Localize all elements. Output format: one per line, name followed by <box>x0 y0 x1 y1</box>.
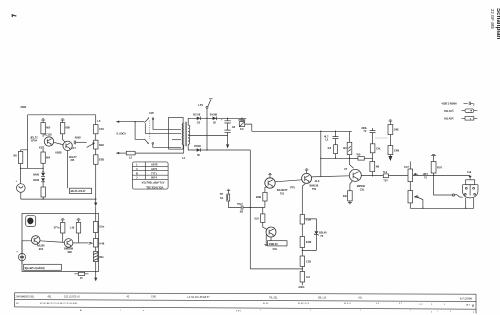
arrow rail down <box>94 278 97 282</box>
wire R24 to output <box>413 173 471 175</box>
wire Q5 emitter <box>350 181 353 191</box>
svg-text:9L 9J: 9L 9J <box>263 303 268 305</box>
svg-text:B0.47+C0.47: B0.47+C0.47 <box>71 189 86 193</box>
ground chassis above R3 <box>61 119 65 123</box>
wire Q7 to Q8 <box>40 241 64 243</box>
wire rectifier top <box>201 117 247 119</box>
transistor Q6 <box>266 227 276 237</box>
svg-text:0.5n: 0.5n <box>99 225 104 229</box>
label B952B C5L <box>357 184 365 191</box>
wire lamp return <box>206 118 208 150</box>
svg-text:C4B: C4B <box>394 148 399 152</box>
svg-text:6.3: 6.3 <box>240 127 244 131</box>
diode D4 <box>210 112 218 124</box>
boxed label B0.47+C0.47 <box>70 188 92 193</box>
transformer L4 secondary <box>188 125 190 144</box>
svg-text:CH5: CH5 <box>151 296 156 299</box>
node PR0B top <box>241 118 242 119</box>
svg-text:600: 600 <box>46 126 51 130</box>
label JELZY 1P54 <box>30 136 38 143</box>
wire 0V to ladder <box>250 268 302 270</box>
ground chassis above R2 <box>41 119 45 123</box>
wire R21 to R22 <box>388 174 408 176</box>
chassis ground above R24 <box>431 154 436 161</box>
svg-text:22 GF 485: 22 GF 485 <box>490 9 495 29</box>
svg-text:80n: 80n <box>99 255 104 259</box>
svg-text:%S A0¾: %S A0¾ <box>444 109 455 113</box>
wire speaker left pin down <box>465 198 467 208</box>
diode D2 <box>33 178 45 182</box>
diode D3 <box>193 112 201 124</box>
arrowhead into pot P1 <box>87 143 95 148</box>
wire diodes to R5 <box>42 182 44 187</box>
wire fuse to transformer <box>135 145 184 153</box>
parts table right edge <box>475 294 477 313</box>
wire R10-R11 <box>301 224 303 237</box>
wire R32 to base line <box>335 154 337 159</box>
node input on 0V rail <box>250 207 251 208</box>
connector pin 2 <box>473 187 475 189</box>
svg-text:1S1 L5J E5 +5: 1S1 L5J E5 +5 <box>64 296 80 299</box>
wire to switch pole1 <box>135 121 144 123</box>
test jack S1 <box>220 192 230 201</box>
wire Q1 to Q2 <box>54 142 63 144</box>
wire M2 to Q7 <box>22 241 31 254</box>
wire rail to R27 <box>95 206 97 221</box>
capacitor C4 <box>237 202 244 213</box>
wire R15 leads <box>263 208 267 230</box>
wire R19 to R20 <box>389 135 391 146</box>
wire R2 to Q1 <box>42 134 44 137</box>
svg-text:B4B: B4B <box>256 195 261 199</box>
wire Q3 to Q4 <box>275 180 302 182</box>
resistor R10 <box>300 215 311 225</box>
node ladder mid <box>302 250 303 251</box>
resistor R13 <box>300 272 310 283</box>
node C <box>42 171 43 172</box>
transistor Q4 <box>302 173 312 183</box>
potentiometer R28 <box>93 239 104 248</box>
svg-text:0.8: 0.8 <box>328 146 332 150</box>
resistor R19 <box>388 125 399 135</box>
resistor R25 <box>54 223 65 234</box>
wire base line <box>321 157 358 159</box>
wire C4 to amp input <box>243 207 265 209</box>
svg-text:C1B: C1B <box>306 260 311 264</box>
svg-text:LP1: LP1 <box>198 103 203 107</box>
wire R5 to rail <box>42 197 44 199</box>
diode D1 <box>33 172 45 176</box>
wiper arrow into R28 <box>89 242 92 244</box>
wire pole2 feed <box>135 122 144 140</box>
chassis ground above R25 <box>61 219 65 223</box>
mains arrow N <box>116 152 119 154</box>
wire +rail <box>252 130 352 132</box>
boxed label 0/9B.3V <box>268 241 288 251</box>
svg-text:0A90: 0A90 <box>33 172 40 176</box>
parts table lower line <box>15 307 477 309</box>
wire R18 down <box>372 172 374 177</box>
svg-text:5L6: 5L6 <box>254 217 259 221</box>
parts row1 <box>16 296 473 301</box>
resistor R32 <box>328 145 338 154</box>
wire C1 to pot with arrow <box>76 141 87 143</box>
svg-text:?00: ?00 <box>356 152 361 156</box>
parts table top line <box>15 293 477 294</box>
transistor Q2 <box>63 141 72 150</box>
mains arrow L <box>116 121 119 123</box>
svg-text:79L 05L: 79L 05L <box>269 296 278 299</box>
svg-text:C5L: C5L <box>360 187 365 191</box>
resistor R18 <box>370 162 380 172</box>
svg-text:/L A0C0: /L A0C0 <box>117 132 127 136</box>
label AB.2N 904 <box>37 244 45 251</box>
capacitor C1 <box>74 135 81 144</box>
transistor Q8 <box>64 239 73 248</box>
transistor Q3 <box>265 178 275 188</box>
resistor R27 <box>93 222 104 233</box>
svg-text:A304: A304 <box>298 285 305 289</box>
MAIN SCHEMATIC GROUP <box>442 102 478 121</box>
resistor R15 <box>254 214 265 223</box>
svg-text:BY.V8: BY.V8 <box>193 112 201 116</box>
svg-text:C5L: C5L <box>273 247 278 251</box>
node mains junction <box>134 121 135 122</box>
wire R25 down <box>62 233 64 242</box>
resistor R7 <box>94 155 105 165</box>
node rect1 <box>206 118 207 119</box>
node base line R16 <box>349 158 350 159</box>
lamp LP1 <box>198 99 212 119</box>
resistor R6 <box>94 125 105 134</box>
wire center tap <box>188 134 227 136</box>
wire M2 bottom <box>21 261 23 265</box>
wire jack to C4 <box>229 201 242 208</box>
svg-text:J: J <box>444 304 445 306</box>
wire collector feed <box>320 131 322 176</box>
svg-text:J15: J15 <box>70 158 75 162</box>
wire R14 leads <box>265 186 267 207</box>
wire secondary top <box>188 118 197 125</box>
transformer tap box <box>169 117 184 149</box>
svg-text:C4?: C4? <box>404 165 409 169</box>
svg-text:B: B <box>136 171 138 175</box>
svg-text:7?71: 7?71 <box>151 171 157 175</box>
wire PR0B leads <box>242 118 252 131</box>
svg-text:VOLTAGE SEL: VOLTAGE SEL <box>145 185 163 189</box>
wire mains L <box>116 121 135 123</box>
microphone M2 <box>16 251 25 261</box>
svg-text:AC125: AC125 <box>44 133 52 137</box>
svg-text:0-48: 0-48 <box>99 241 105 245</box>
wire R6 to P1 <box>95 134 97 140</box>
capacitor C3 <box>324 131 339 144</box>
svg-text:604: 604 <box>46 156 51 160</box>
pickup M1 <box>16 180 26 192</box>
svg-text:5 9 5: 5 9 5 <box>236 311 242 313</box>
node speaker return <box>465 208 466 209</box>
label JELZY J15 <box>69 155 77 162</box>
parts row3 <box>80 309 475 314</box>
wire secondary bottom <box>188 144 250 150</box>
label B9N-36 T51 <box>310 184 319 191</box>
svg-text:751: 751 <box>280 191 285 195</box>
svg-text:A062: A062 <box>75 135 82 139</box>
svg-text:7: 7 <box>12 14 18 17</box>
wire zener branch <box>305 219 317 231</box>
node B <box>42 168 43 169</box>
transistor Q5 <box>349 169 361 181</box>
transformer L4 core <box>185 122 187 147</box>
svg-text:?5?: ?5? <box>383 178 388 182</box>
label BM52M 906 <box>64 246 74 253</box>
parts row2 <box>16 303 475 308</box>
svg-text:+5L: +5L <box>358 297 363 300</box>
svg-text:L4 %0 C0 L#5 E8 5?: L4 %0 C0 L#5 E8 5? <box>187 296 210 299</box>
svg-text:039Z: 039Z <box>21 105 27 109</box>
resistor R11 <box>300 237 312 248</box>
resistor R14 <box>256 192 267 201</box>
svg-text:9u? (25/9#): 9u? (25/9#) <box>460 297 472 300</box>
pickup icon box <box>26 216 36 227</box>
wire return line <box>410 207 473 209</box>
svg-text:50?4: 50?4 <box>151 176 157 180</box>
label 60L0E7P 751 <box>277 188 288 195</box>
svg-text:?L2: ?L2 <box>383 170 388 174</box>
node C2 top <box>227 118 228 119</box>
resistor R24 <box>431 162 442 174</box>
node feedback <box>422 208 423 209</box>
svg-text:RU?: RU? <box>437 166 443 170</box>
node collector feed top <box>320 131 321 132</box>
svg-text:C04: C04 <box>99 127 104 131</box>
svg-text:A0?1: A0?1 <box>151 167 158 171</box>
ground arrow below R20 <box>389 155 392 161</box>
arrow to speaker <box>469 176 472 179</box>
svg-text:05L L.B: 05L L.B <box>318 296 327 299</box>
wire R3 to Q2 <box>63 134 66 143</box>
svg-text:E0B: E0B <box>99 158 104 162</box>
svg-text:%S A8¾: %S A8¾ <box>444 117 455 121</box>
wire R7 to rail <box>95 164 97 202</box>
tolerance legend resistor with 1 <box>462 117 478 121</box>
connector pin 1 <box>465 187 467 189</box>
svg-text:EB: EB <box>343 194 347 198</box>
wire R29 to bottom <box>95 262 97 278</box>
speaker connector body <box>462 179 478 198</box>
wire R11-R12 <box>301 248 303 257</box>
resistor R4 <box>41 152 51 163</box>
parts table left edge <box>14 293 16 307</box>
resistor R12 <box>300 256 311 267</box>
resistor R23 <box>408 191 420 203</box>
svg-text:AB.2N: AB.2N <box>37 244 45 248</box>
wire frame right down <box>95 115 97 125</box>
wire pickup to rail <box>20 192 22 199</box>
svg-text:BY.N8: BY.N8 <box>210 112 218 116</box>
svg-text:1B.5: 1B.5 <box>466 304 471 306</box>
svg-text:9Y.N9: 9Y.N9 <box>194 144 201 148</box>
transistor Q1 <box>44 137 53 146</box>
ground Q6 <box>264 235 268 246</box>
wire to Q5 base <box>349 158 353 168</box>
block2 frame <box>22 214 99 272</box>
tolerance legend cap symbol <box>464 102 476 107</box>
wire R27 to R28 <box>95 233 97 239</box>
boxed formula label <box>24 264 62 270</box>
svg-text:%DE 2 N00N: %DE 2 N00N <box>442 102 457 106</box>
wire R23 to return <box>409 203 411 208</box>
wire mains N <box>116 152 126 154</box>
wiper arrow R22 <box>414 173 418 175</box>
svg-text:A-0: A-0 <box>306 275 311 279</box>
voltage selector table <box>132 162 168 189</box>
zener D6 <box>315 230 328 237</box>
diode D5 <box>194 144 201 157</box>
svg-text:T51: T51 <box>312 187 317 191</box>
svg-text:A?L+P0P ?09L7CA: A?L+P0P ?09L7CA <box>142 181 165 185</box>
resistor R2 <box>41 123 51 134</box>
svg-text:N18: N18 <box>99 143 104 147</box>
resistor R16 <box>343 131 352 154</box>
wiper arrow R23 feedback <box>415 196 423 200</box>
svg-text:0/9B.3V: 0/9B.3V <box>269 242 278 246</box>
node collector feed mid <box>320 158 321 159</box>
svg-text:27?n: 27?n <box>54 226 60 230</box>
wire Q1 to R4 <box>42 146 44 152</box>
connector pin 4 <box>474 193 476 195</box>
chassis ground above Q4 <box>305 169 309 174</box>
wire Q2 emitter down <box>67 151 69 189</box>
faint link wire <box>375 137 388 139</box>
svg-text:B5L40: B5L40 <box>319 230 327 234</box>
svg-text:C#5: C#5 <box>149 111 154 115</box>
svg-text:A02B: A02B <box>55 151 62 155</box>
resistor R17 <box>370 144 381 153</box>
svg-text:L16: L16 <box>70 226 75 230</box>
block1 frame left <box>27 115 29 169</box>
tolerance legend resistor with dot <box>462 109 478 113</box>
svg-text:906: 906 <box>68 250 73 254</box>
svg-text:A0?E: A0?E <box>151 162 158 166</box>
resistor R26 <box>70 223 81 234</box>
block1 frame top <box>28 114 96 116</box>
thermistor R29 <box>93 252 104 262</box>
wire block1 bottom rail <box>21 198 96 200</box>
svg-text:34B: 34B <box>394 128 399 132</box>
svg-text:C4L: C4L <box>376 147 381 151</box>
potentiometer P1 <box>94 140 105 149</box>
chassis ground above R19 <box>389 120 393 125</box>
wire R4 to diodes <box>21 163 43 173</box>
transformer L4 primary <box>182 123 184 145</box>
svg-text:TP: TP <box>220 192 224 196</box>
resistor R20 <box>388 146 399 155</box>
wire Q4 to Q5 <box>312 176 350 177</box>
wire R24 to hook <box>434 175 453 195</box>
svg-text:904: 904 <box>39 247 44 251</box>
parts table mid line <box>15 300 477 302</box>
wire R17 to R18 <box>372 153 374 162</box>
wire 0V rail down <box>249 150 251 269</box>
node D <box>43 198 44 199</box>
wire pickup branch top <box>21 150 28 152</box>
svg-text:45L: 45L <box>48 296 53 299</box>
switch coupling dashed <box>149 121 151 141</box>
arrow to block2 rail <box>94 203 97 207</box>
svg-text:9[x+B/T+1)x0/x0]: 9[x+B/T+1)x0/x0] <box>25 266 45 270</box>
ground below R31 <box>348 201 352 204</box>
resistor R3 <box>60 123 70 134</box>
wire R1 to pickup <box>20 164 22 184</box>
svg-text:A1Y: A1Y <box>71 146 76 150</box>
wire Q4 emitter to ladder <box>302 184 305 215</box>
wire R13 tail <box>301 282 303 285</box>
pickup icon blob <box>27 218 33 225</box>
chassis ground above R26 <box>77 219 81 223</box>
resistor R1 <box>13 152 22 164</box>
svg-text:BM52M: BM52M <box>64 246 74 250</box>
connector pin 3 <box>464 193 466 195</box>
wire R12-R13 <box>301 267 303 272</box>
node output R24 <box>433 175 434 176</box>
svg-text:2N4 B#B0G0 95L: 2N4 B#B0G0 95L <box>16 296 35 299</box>
wire zener to ladder mid <box>302 235 316 251</box>
wire R22 to R23 <box>409 182 411 191</box>
wire R28 to R29 <box>95 247 97 252</box>
resistor R5 <box>41 187 45 197</box>
svg-text:1P54: 1P54 <box>31 139 37 143</box>
svg-text:C1B: C1B <box>306 218 311 222</box>
wire R26 down <box>78 233 80 243</box>
svg-text:AL0: AL0 <box>315 179 320 183</box>
node rail tap <box>335 131 336 132</box>
capacitor C6 <box>361 126 375 144</box>
transistor Q7 <box>31 236 40 245</box>
capacitor C2 electrolytic <box>221 118 236 144</box>
svg-text:Cul: Cul <box>467 170 471 174</box>
chassis ground above Q3 <box>268 174 272 178</box>
label HP1 ?2 <box>423 172 429 179</box>
resistor R21 horizontal <box>383 170 389 182</box>
resistor R30 horizontal <box>75 272 89 280</box>
svg-text:9L E1 J1 .6: 9L E1 J1 .6 <box>298 303 310 305</box>
resistor R22 <box>404 162 413 182</box>
svg-text:E1M: E1M <box>306 240 312 244</box>
svg-text:PT5: PT5 <box>290 185 295 189</box>
node base line <box>335 158 336 159</box>
ground arrow C2 <box>226 144 229 148</box>
switch S4 pole 2 <box>144 139 181 147</box>
wire feedback to return <box>422 200 424 209</box>
wire Q6 to box <box>270 237 272 241</box>
fuse R8 <box>126 151 135 159</box>
wire Q5 output <box>361 174 383 176</box>
node ladder 0V <box>302 268 303 269</box>
svg-text:0L 0. 0: 0L 0. 0 <box>344 303 351 305</box>
node E <box>95 198 96 199</box>
fuse PR0B <box>239 118 246 131</box>
node rect2 <box>206 149 207 150</box>
wire Q8 to pot <box>73 242 88 244</box>
connector hook <box>452 194 462 197</box>
chassis ground above jack <box>227 189 231 194</box>
svg-text:9C 9C BE J1 7C 0Z 0E 7Z JC: 9C 9C BE J1 7C 0Z 0E 7Z JC 0D B.9L <box>40 303 78 305</box>
svg-text:608: 608 <box>66 126 71 130</box>
resistor R16b horizontal <box>349 155 372 161</box>
wire speaker right pin down <box>473 198 475 208</box>
wire P1 to R7 <box>95 149 97 155</box>
